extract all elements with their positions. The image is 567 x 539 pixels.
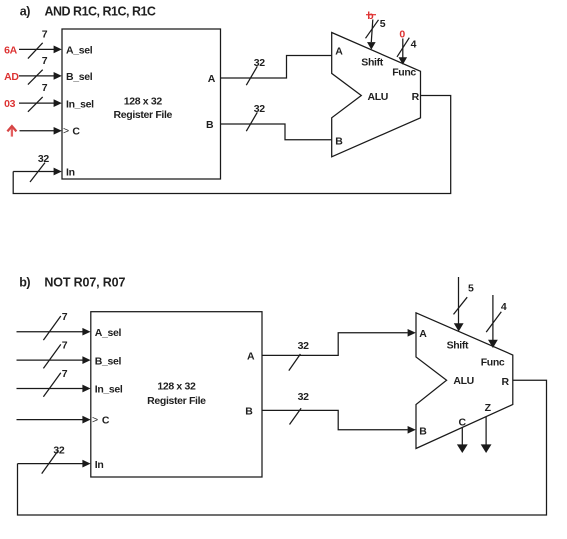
wire B to ALU b bbox=[262, 410, 416, 433]
wire R feedback to In b bbox=[18, 380, 547, 515]
bus slash In_sel bbox=[28, 97, 43, 112]
wire R feedback to In bbox=[13, 96, 451, 194]
ALU U2 bbox=[332, 33, 421, 157]
svg-text:A: A bbox=[335, 45, 343, 57]
svg-text:B: B bbox=[206, 119, 214, 131]
svg-text:32: 32 bbox=[298, 391, 309, 403]
svg-text:In: In bbox=[66, 167, 75, 179]
svg-text:ALU: ALU bbox=[368, 91, 389, 103]
svg-text:R: R bbox=[502, 376, 510, 388]
bus slash B_sel bbox=[28, 70, 43, 85]
pin C clock b bbox=[92, 414, 110, 427]
register file U1 bbox=[62, 29, 221, 179]
svg-text:32: 32 bbox=[53, 445, 64, 457]
svg-text:C: C bbox=[102, 415, 110, 427]
svg-text:a): a) bbox=[20, 4, 30, 18]
bus slash In bbox=[30, 163, 45, 182]
wire C input b bbox=[17, 416, 91, 424]
svg-text:Register File: Register File bbox=[147, 395, 206, 407]
wire Shift input b bbox=[454, 277, 464, 332]
value clock rising edge (red up arrow) bbox=[7, 126, 16, 137]
svg-text:ALU: ALU bbox=[453, 375, 474, 387]
U3 label bbox=[147, 381, 206, 407]
svg-text:32: 32 bbox=[298, 340, 309, 352]
wire A_sel input bbox=[19, 46, 62, 54]
wire In_sel input bbox=[19, 99, 62, 107]
svg-text:Func: Func bbox=[392, 67, 416, 79]
wire B_sel input b bbox=[17, 356, 91, 364]
svg-text:>: > bbox=[63, 125, 69, 137]
svg-text:NOT R07, R07: NOT R07, R07 bbox=[44, 276, 125, 290]
svg-text:A: A bbox=[208, 73, 216, 85]
svg-text:03: 03 bbox=[4, 98, 15, 110]
bus slash A_sel bbox=[28, 43, 43, 59]
svg-text:R: R bbox=[412, 91, 420, 103]
bus slash B_sel b bbox=[43, 344, 60, 368]
bus slash Func b bbox=[486, 312, 501, 332]
svg-text:4: 4 bbox=[411, 39, 417, 51]
svg-text:32: 32 bbox=[254, 57, 265, 69]
wire In_sel input b bbox=[17, 385, 91, 393]
wire C output arrow bbox=[457, 428, 468, 453]
svg-text:B: B bbox=[419, 426, 427, 438]
svg-text:C: C bbox=[72, 125, 80, 137]
bus slash A wire bbox=[246, 66, 257, 85]
bus slash A wire b bbox=[289, 354, 301, 371]
svg-text:Func: Func bbox=[481, 357, 505, 369]
wire Z output arrow bbox=[481, 417, 492, 453]
svg-text:>: > bbox=[92, 414, 98, 426]
bus slash In b bbox=[42, 450, 59, 473]
svg-text:Register File: Register File bbox=[114, 109, 173, 121]
wire In input b bbox=[18, 460, 91, 468]
wire Shift input bbox=[367, 20, 376, 50]
svg-text:7: 7 bbox=[62, 368, 68, 380]
svg-text:A_sel: A_sel bbox=[66, 45, 93, 57]
wire B to ALU bbox=[221, 124, 332, 140]
svg-text:7: 7 bbox=[42, 55, 48, 67]
svg-text:B_sel: B_sel bbox=[95, 355, 122, 367]
title a bbox=[20, 4, 156, 18]
svg-text:In_sel: In_sel bbox=[95, 384, 123, 396]
svg-text:128 x 32: 128 x 32 bbox=[124, 95, 163, 107]
svg-text:32: 32 bbox=[254, 103, 265, 115]
bus slash Func bbox=[397, 38, 409, 57]
svg-text:AND R1C, R1C, R1C: AND R1C, R1C, R1C bbox=[45, 4, 156, 18]
svg-text:C: C bbox=[459, 417, 467, 429]
register file U3 bbox=[91, 312, 262, 477]
svg-text:32: 32 bbox=[38, 153, 49, 165]
wire In input bbox=[13, 168, 62, 176]
ALU U4 bbox=[416, 313, 513, 449]
bus slash Shift b bbox=[454, 297, 468, 314]
svg-text:In: In bbox=[95, 459, 104, 471]
wire A to ALU b bbox=[262, 329, 416, 355]
value b (struck out, shift amount) bbox=[366, 10, 376, 22]
wire Func input b bbox=[488, 295, 498, 348]
bus slash B wire b bbox=[290, 408, 302, 424]
svg-text:AD: AD bbox=[4, 71, 19, 83]
svg-text:B_sel: B_sel bbox=[66, 71, 93, 83]
bus slash Shift bbox=[366, 20, 379, 39]
svg-text:A: A bbox=[419, 328, 427, 340]
bus slash In_sel b bbox=[43, 373, 60, 397]
bus slash B wire bbox=[246, 112, 257, 131]
svg-text:Z: Z bbox=[485, 402, 492, 414]
bus slash A_sel b bbox=[43, 316, 60, 340]
svg-text:Shift: Shift bbox=[361, 56, 383, 68]
svg-text:A: A bbox=[247, 350, 255, 362]
wire A to ALU bbox=[221, 56, 332, 79]
wire Func input bbox=[399, 39, 408, 65]
wire B_sel input bbox=[19, 72, 62, 80]
svg-text:7: 7 bbox=[62, 311, 68, 323]
svg-text:128 x 32: 128 x 32 bbox=[157, 381, 196, 393]
svg-text:b): b) bbox=[19, 276, 30, 290]
svg-text:A_sel: A_sel bbox=[95, 327, 122, 339]
wire C input bbox=[20, 127, 62, 135]
svg-text:7: 7 bbox=[42, 28, 48, 40]
title b bbox=[19, 276, 125, 290]
svg-text:4: 4 bbox=[501, 301, 507, 313]
svg-text:In_sel: In_sel bbox=[66, 98, 94, 110]
U1 label bbox=[114, 95, 173, 120]
svg-text:7: 7 bbox=[42, 82, 48, 94]
svg-text:B: B bbox=[245, 405, 253, 417]
svg-text:6A: 6A bbox=[4, 44, 17, 56]
wire A_sel input b bbox=[17, 328, 91, 336]
svg-text:Shift: Shift bbox=[447, 340, 469, 352]
svg-text:5: 5 bbox=[380, 18, 386, 30]
pin C clock bbox=[63, 125, 80, 137]
svg-text:5: 5 bbox=[468, 282, 474, 294]
svg-text:B: B bbox=[335, 136, 343, 148]
svg-text:7: 7 bbox=[62, 340, 68, 352]
